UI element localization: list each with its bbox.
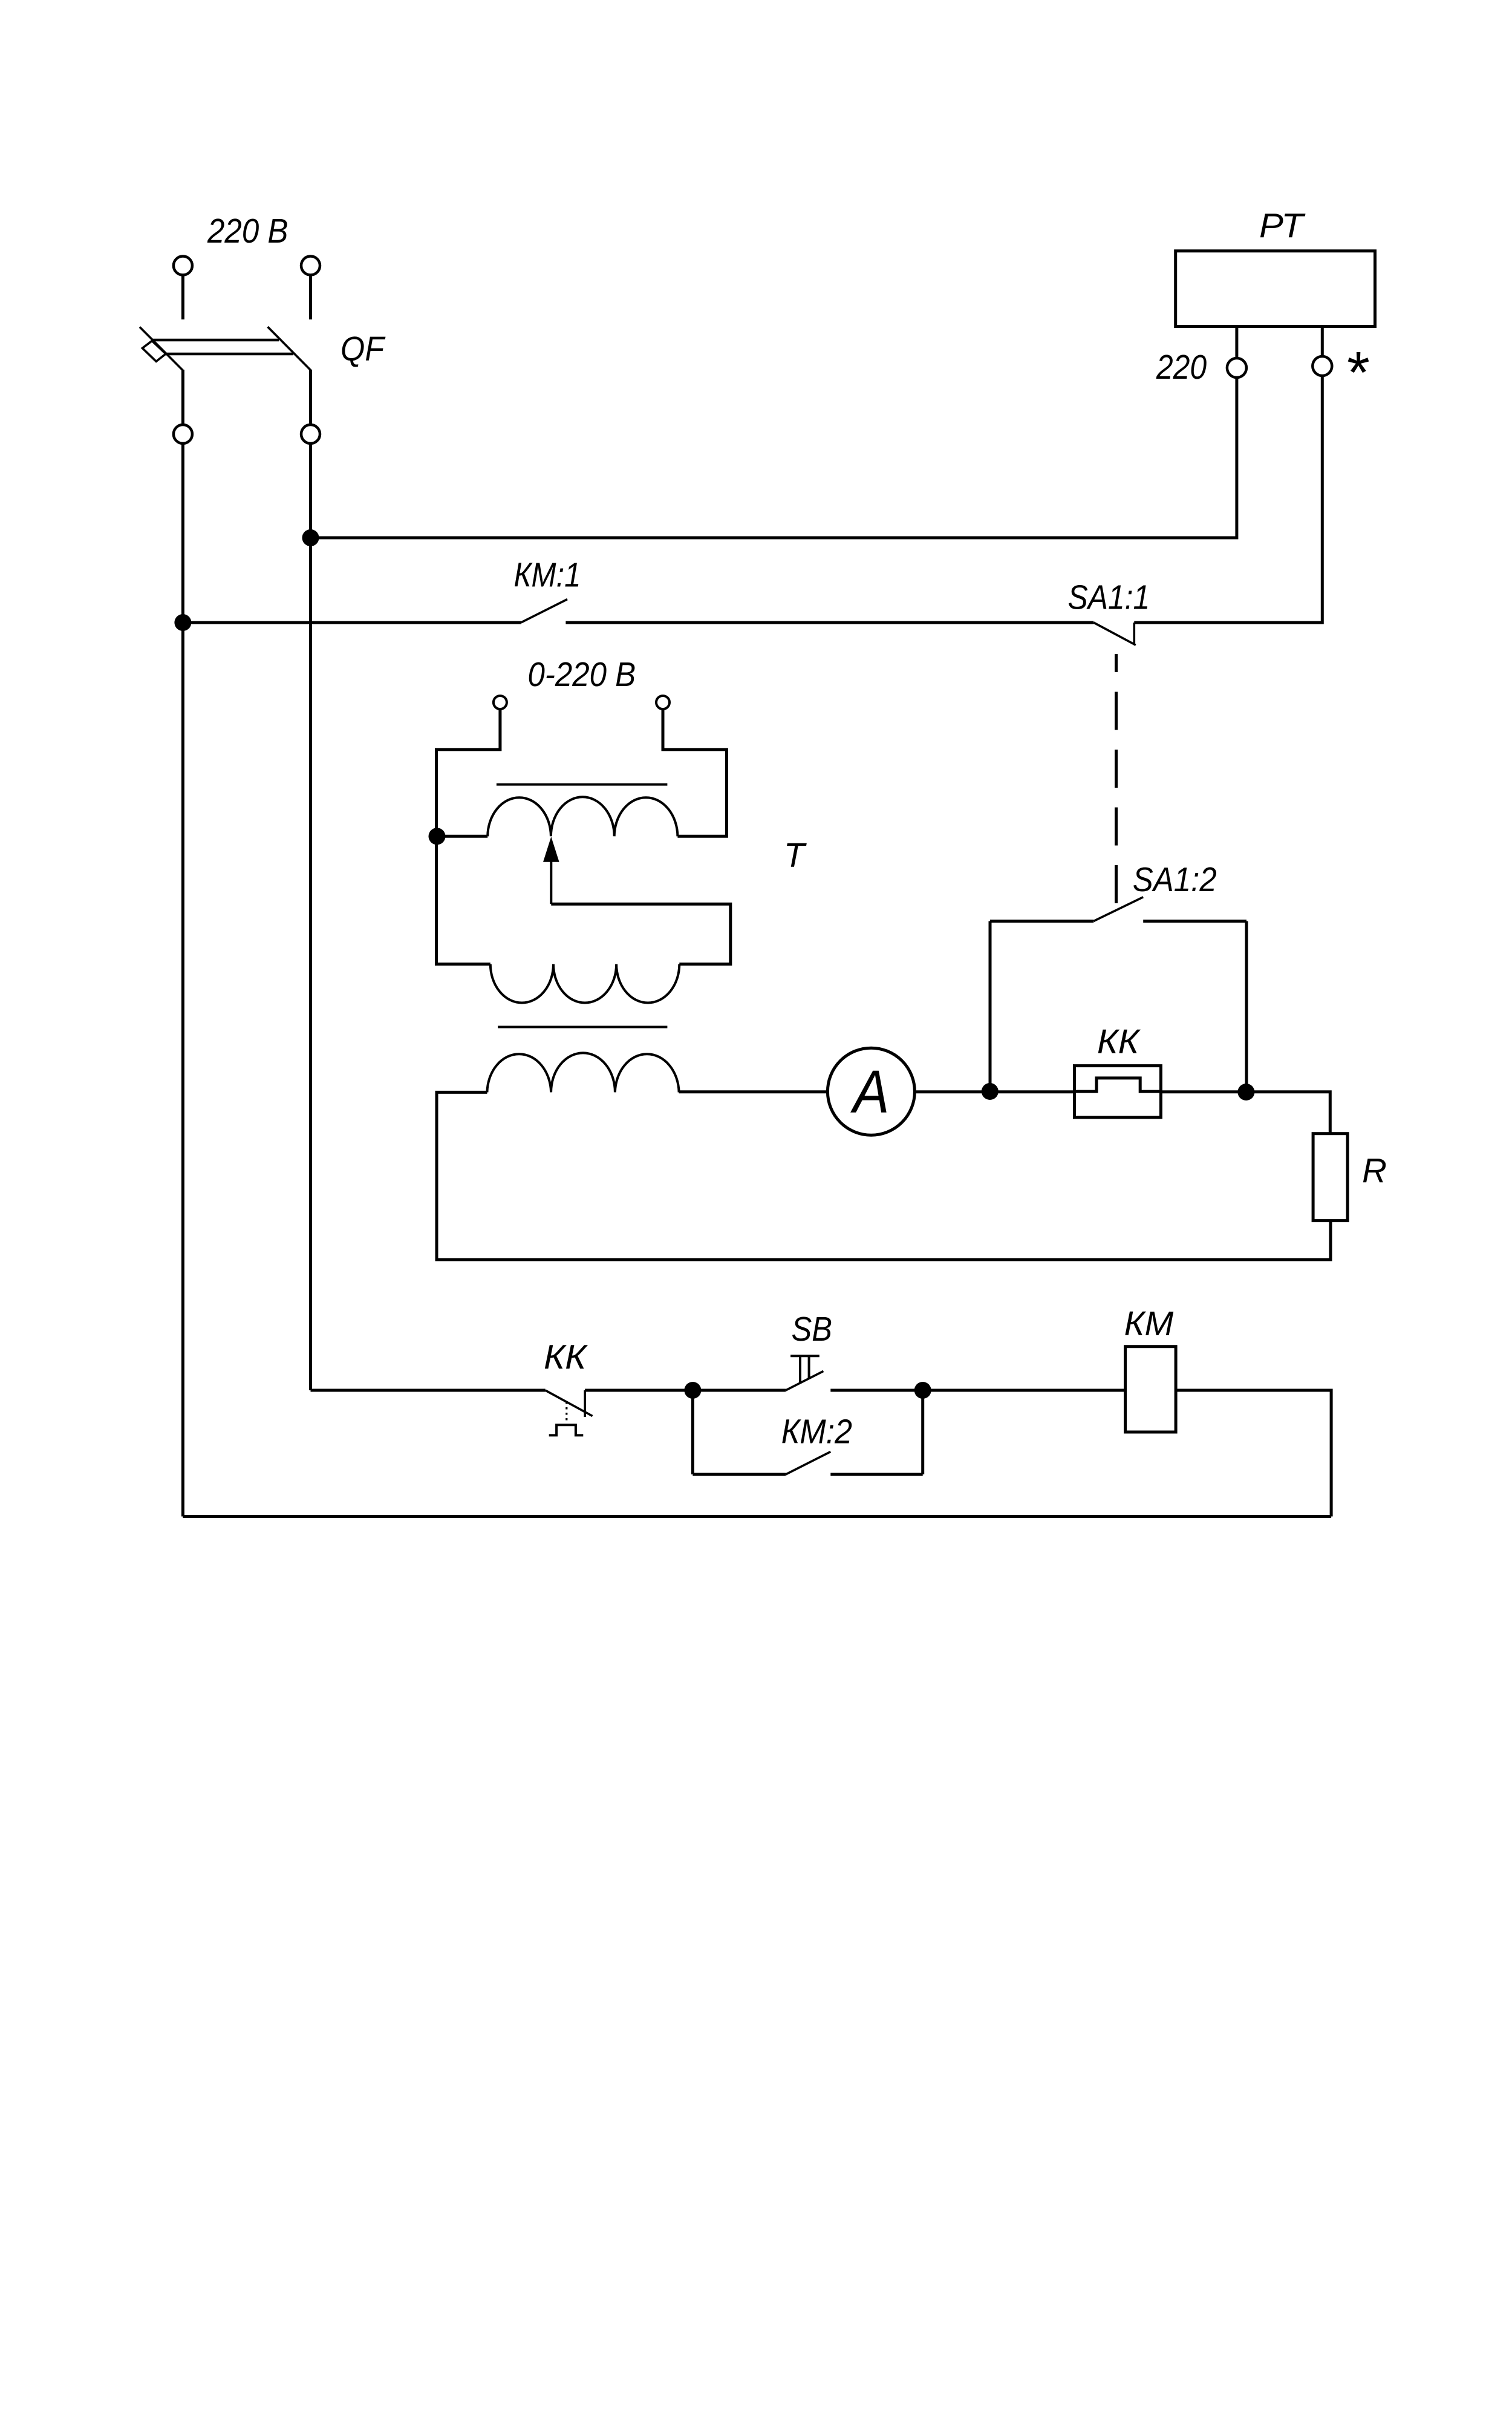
wire supply left stub [181, 275, 184, 320]
wiper arrow head [543, 837, 559, 862]
terminal QF lower right [301, 425, 320, 443]
svg-text:*: * [1344, 339, 1369, 405]
contact SA1:2 [990, 897, 1246, 921]
wire T output right lead [663, 709, 726, 836]
QF right blade [268, 327, 311, 371]
KK manual reset symbol [549, 1425, 584, 1435]
wire PT left lead [1235, 327, 1238, 359]
wire KM:2 branch right vertical [921, 1390, 924, 1474]
wire tap to winding1 [437, 835, 488, 838]
svg-text:КК: КК [1097, 1022, 1141, 1061]
wire KM:2 branch left [692, 1473, 786, 1476]
core bar lower [498, 1026, 667, 1028]
contact SA1:1 blade [1093, 623, 1136, 645]
thermal relay heater KK [1075, 1066, 1161, 1117]
wire PT right lead [1321, 327, 1324, 357]
node junction SA1:2 left [982, 1083, 999, 1100]
QF left blade [140, 327, 183, 371]
wire left bus vertical [181, 443, 184, 1517]
svg-text:КМ:1: КМ:1 [514, 556, 581, 594]
wire KM coil to right drop [1176, 1390, 1331, 1517]
QF linkage top bar [152, 339, 279, 342]
svg-text:220: 220 [1156, 348, 1207, 386]
contact KK NC blade [546, 1390, 593, 1416]
svg-text:КМ:2: КМ:2 [781, 1412, 852, 1450]
wire KM:2 branch right [830, 1473, 922, 1476]
wire KK heater to resistor [1161, 1092, 1330, 1134]
svg-text:SA1:1: SA1:1 [1068, 578, 1150, 616]
terminal PT 220 [1227, 358, 1246, 378]
wire secondary left loop [437, 1092, 1331, 1260]
contact KM:2 blade [786, 1452, 830, 1475]
svg-text:SA1:2: SA1:2 [1133, 860, 1217, 898]
wire to PT 220 terminal [311, 378, 1237, 538]
terminal PT asterisk [1312, 356, 1332, 376]
wiper arrow shaft [550, 860, 552, 904]
wire T output left lead [437, 709, 500, 964]
terminal supply left [174, 257, 192, 275]
svg-text:220 В: 220 В [207, 212, 288, 250]
QF left pole lower lead [181, 370, 184, 425]
QF breaker square [142, 341, 166, 361]
wire ammeter to KK heater [914, 1090, 1074, 1093]
terminal QF lower left [174, 425, 192, 443]
node junction KM:2 right [914, 1382, 931, 1399]
svg-text:QF: QF [341, 330, 386, 368]
svg-text:А: А [850, 1058, 889, 1126]
linkage dashed SA1 [1115, 654, 1118, 906]
terminal T output left [494, 696, 507, 709]
svg-text:РТ: РТ [1259, 206, 1306, 244]
core bar upper [497, 783, 668, 786]
terminal supply right [301, 257, 320, 275]
wire supply right stub [309, 275, 312, 320]
node junction SA1:2 right [1237, 1084, 1254, 1100]
KK heater element [1075, 1078, 1161, 1091]
autotransformer T [429, 655, 807, 1092]
wire SA1:2 left [990, 920, 1093, 923]
circuit breaker QF [140, 327, 311, 425]
button SB blade [786, 1371, 823, 1390]
wire SA1:2 bypass right vertical [1245, 921, 1248, 1093]
wire control bottom return [183, 1515, 1331, 1518]
wire SA1:2 bypass left vertical [989, 921, 992, 1092]
wire control feed corner [311, 1389, 546, 1392]
wire right bus vertical [309, 443, 312, 1390]
control circuit [183, 1304, 1331, 1517]
wire SB to KM coil [830, 1389, 1125, 1392]
svg-text:0-220 В: 0-220 В [528, 655, 636, 693]
button SB actuator [790, 1356, 820, 1382]
wire KM:1 left [183, 621, 521, 624]
wire SA1:2 right [1143, 920, 1246, 923]
wire secondary to ammeter [679, 1090, 828, 1093]
contactor coil KM [1126, 1347, 1176, 1432]
winding T upper [487, 797, 677, 836]
svg-text:Т: Т [784, 836, 807, 874]
wire KM:1 to SA1:1 [565, 621, 1093, 624]
KK manual reset dotted link [565, 1402, 567, 1424]
contact KM:1 blade [521, 600, 567, 623]
winding T secondary [487, 1053, 679, 1092]
node junction to PT 220 [302, 529, 319, 546]
svg-text:КК: КК [544, 1338, 588, 1376]
QF right pole lower lead [309, 370, 312, 425]
QF linkage bottom bar [166, 353, 293, 356]
node T winding tap junction [429, 828, 446, 845]
relay PT box [1176, 251, 1375, 327]
node junction KM:2 left [684, 1382, 701, 1399]
wire KM:2 branch left vertical [691, 1390, 694, 1474]
contact SA1:1 fixed stub [1133, 623, 1136, 644]
svg-text:R: R [1362, 1151, 1387, 1189]
resistor R [1313, 1134, 1347, 1221]
node junction KM:1 feed [174, 614, 191, 631]
KK heater box [1075, 1066, 1161, 1117]
svg-text:SB: SB [792, 1310, 832, 1348]
svg-text:КМ: КМ [1124, 1304, 1175, 1342]
wire wiper tap [551, 904, 731, 964]
winding T lower [490, 964, 680, 1003]
contact SA1:2 blade [1093, 897, 1143, 921]
wire KK to SB [585, 1389, 786, 1392]
terminal T output right [656, 696, 670, 709]
contact KK NC fixed stub [584, 1390, 586, 1417]
ammeter A [827, 1048, 914, 1135]
wire SA1:1 to PT asterisk [1134, 376, 1322, 623]
